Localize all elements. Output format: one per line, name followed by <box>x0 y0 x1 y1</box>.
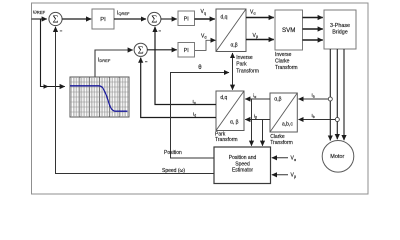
svg-text:IDREF: IDREF <box>98 57 111 63</box>
wire S3 to PI2 <box>161 18 177 20</box>
svg-text:Inverse: Inverse <box>236 55 253 61</box>
svg-text:IQREF: IQREF <box>117 11 130 17</box>
svg-text:Motor: Motor <box>330 154 344 160</box>
block PI2 q current controller <box>178 11 195 26</box>
svg-text:α,β: α,β <box>231 43 238 49</box>
svg-text:d,q: d,q <box>221 15 228 21</box>
svg-text:PI: PI <box>184 48 189 54</box>
wire PI1 to summer S3 <box>114 18 146 20</box>
svg-text:Σ: Σ <box>151 15 157 26</box>
svg-text:Transform: Transform <box>215 137 238 143</box>
outer border frame <box>32 3 369 194</box>
wire SVM to bridge phase 3 <box>303 39 323 41</box>
summer S1 <box>49 12 62 25</box>
block 3-phase bridge <box>324 10 356 49</box>
svg-text:Inverse: Inverse <box>275 52 292 58</box>
svg-text:Position and: Position and <box>229 155 257 161</box>
junction node on phase A for ia <box>328 97 332 101</box>
svg-text:Clarke: Clarke <box>275 59 290 65</box>
svg-text:d,q: d,q <box>220 95 227 101</box>
field weakening graph box <box>70 77 129 117</box>
wire i-alpha clarke to park <box>245 98 270 100</box>
svg-text:Speed (ω): Speed (ω) <box>162 168 185 174</box>
wire wREF branch down to field-weakening graph <box>41 19 65 87</box>
summer S3 q-axis <box>148 12 161 25</box>
svg-text:a,b,c: a,b,c <box>282 122 293 128</box>
svg-text:Bridge: Bridge <box>332 30 348 36</box>
wire i-beta branch down to estimator <box>262 120 264 146</box>
block position and speed estimator <box>214 147 271 184</box>
svg-text:Transform: Transform <box>275 65 298 71</box>
wire ib tap to clarke <box>299 119 336 121</box>
block park transform <box>216 91 244 131</box>
svg-text:Position: Position <box>164 150 182 156</box>
wire S2 to PI3 <box>147 49 177 51</box>
minus sign at S1 feedback <box>60 30 62 31</box>
wire S1 to PI1 <box>62 18 91 20</box>
svg-text:α,β: α,β <box>274 97 281 103</box>
block PI1 speed controller <box>92 9 114 29</box>
svg-text:3-Phase: 3-Phase <box>330 23 350 29</box>
svg-text:Transform: Transform <box>236 68 259 74</box>
wire PI3 Vd to inverse park <box>195 40 216 50</box>
minus sign at S2 feedback <box>145 61 147 62</box>
wire Vbeta to SVM <box>246 39 274 41</box>
wire PI2 Vq to inverse park <box>195 18 215 20</box>
wire bridge phase A down to motor <box>329 49 331 141</box>
svg-text:Σ: Σ <box>138 45 144 56</box>
block SVM <box>275 10 303 50</box>
wire Iq feedback park to S3 <box>155 27 216 105</box>
svg-text:Estimator: Estimator <box>232 167 253 173</box>
wire i-beta clarke to park <box>245 119 270 121</box>
wire speed feedback estimator to S1 <box>56 27 215 174</box>
wire theta down into park <box>232 73 234 90</box>
grid dark vertical lines <box>80 77 119 117</box>
block U1 inverse park transform <box>216 9 246 52</box>
minus sign at S3 feedback <box>159 30 161 31</box>
svg-text:PI: PI <box>100 17 106 23</box>
wire SVM to bridge phase 2 <box>303 28 323 30</box>
svg-text:SVM: SVM <box>282 27 295 34</box>
svg-text:Σ: Σ <box>52 15 58 26</box>
block clarke transform <box>270 93 297 132</box>
wire wREF input to summer S1 <box>32 18 47 20</box>
svg-text:ωREF: ωREF <box>33 9 46 15</box>
block PI3 d current controller <box>178 43 195 58</box>
svg-text:Transform: Transform <box>270 140 293 146</box>
svg-text:α, β: α, β <box>230 120 239 126</box>
wire field-weakening output IdREF to summer S2 <box>95 50 133 77</box>
summer S2 d-axis <box>134 43 147 56</box>
wire bridge phase C down to motor <box>343 49 345 140</box>
grid vertical lines <box>72 77 128 117</box>
wire Valpha stub into estimator <box>272 157 288 159</box>
wire SVM to bridge phase 1 <box>303 17 323 19</box>
svg-text:PI: PI <box>184 17 189 23</box>
wire Valpha to SVM <box>246 17 274 19</box>
motor <box>322 141 354 173</box>
wire theta up into inverse park <box>232 53 234 73</box>
wire Id feedback park to S2 <box>141 58 216 118</box>
mid arrowhead on branch wire <box>44 84 49 89</box>
grid horizontal lines <box>70 82 129 112</box>
wire bridge phase B down to motor <box>336 49 338 139</box>
svg-text:Park: Park <box>236 62 247 68</box>
wire position to theta junction <box>171 73 230 159</box>
field weakening curve <box>70 86 128 111</box>
wire i-alpha branch down to estimator <box>251 99 253 146</box>
junction node on phase B for ib <box>335 118 339 122</box>
wire ia tap to clarke <box>299 98 329 100</box>
wire Vbeta stub into estimator <box>272 174 288 176</box>
